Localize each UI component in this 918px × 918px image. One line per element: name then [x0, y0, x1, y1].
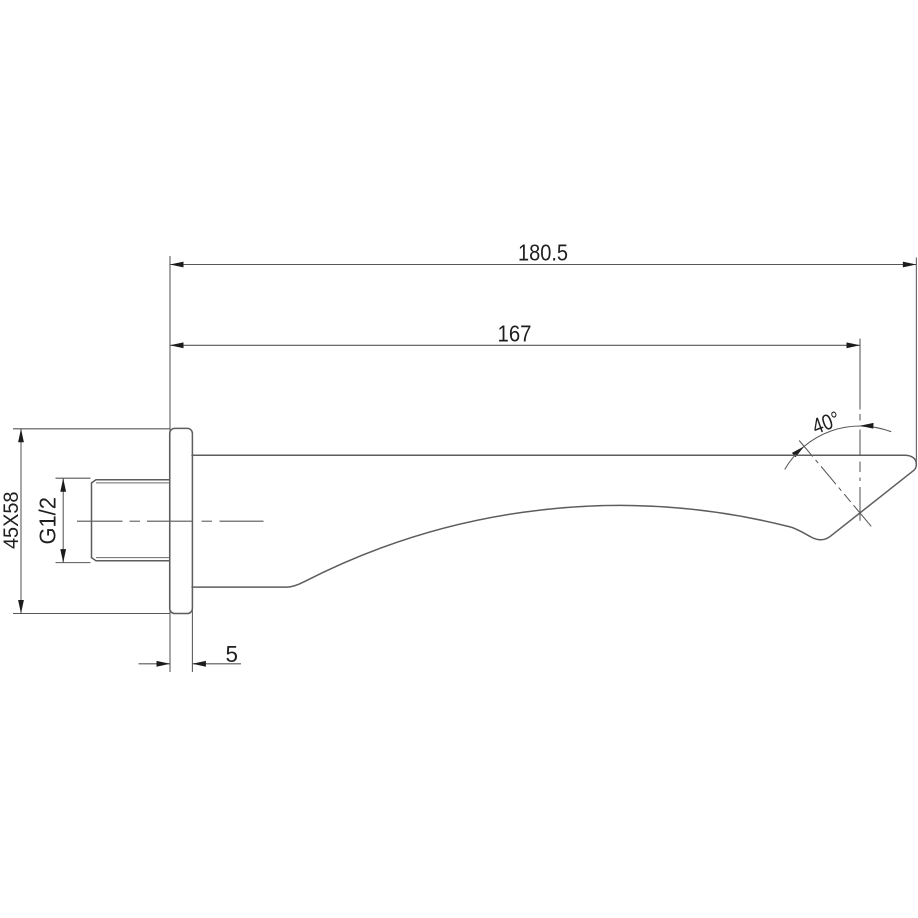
angle dimension 40deg [785, 406, 892, 469]
wall flange [170, 428, 193, 613]
dimension 45X58 [0, 429, 170, 614]
svg-text:5: 5 [226, 641, 239, 667]
dimension G1/2 [34, 478, 90, 562]
extension line outlet vertical (x=860) [859, 339, 861, 521]
threaded nipple G1/2 [92, 480, 170, 561]
dimension 5 (flange thickness) [139, 608, 242, 672]
svg-text:G1/2: G1/2 [34, 497, 60, 545]
spout body outline [192, 455, 916, 587]
outlet axis centerline (40deg) [799, 441, 871, 527]
extension line right end of spout (x=916.4) [915, 258, 917, 465]
dimension 180.5 [170, 240, 916, 268]
svg-text:180.5: 180.5 [518, 240, 568, 266]
extension line left (wall face, x=170) [169, 256, 171, 672]
centerline horizontal [77, 520, 264, 522]
svg-text:45X58: 45X58 [0, 492, 23, 550]
svg-text:167: 167 [498, 321, 532, 347]
dimension 167 [170, 321, 860, 349]
